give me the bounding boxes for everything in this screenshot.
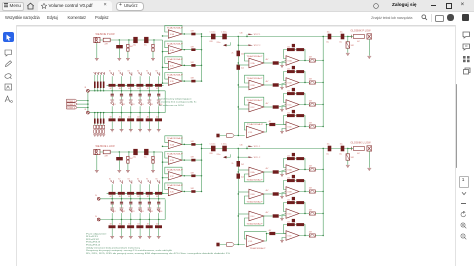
selected select-tool [3, 32, 14, 43]
right panel [455, 25, 474, 266]
svg-text:K3: K3 [128, 179, 130, 181]
capacitor C112 2u2 [237, 65, 241, 70]
wire ladder chain ch1 [107, 84, 164, 86]
net flag big amp input ch1 [226, 134, 234, 138]
svg-text:WEJSCIE P LOW: WEJSCIE P LOW [96, 33, 116, 36]
wire ladder bus [100, 198, 165, 200]
wire connector ground leg [368, 151, 370, 168]
capacitor ladder C214 [148, 202, 151, 203]
Zaloguj sie [392, 2, 416, 7]
resistor R251 2k2 feedback [296, 179, 304, 182]
resistor R112 10R [191, 64, 195, 67]
wire [152, 51, 154, 58]
relay contact K121 [120, 102, 123, 105]
wire +in IC1A [163, 35, 169, 37]
ground [102, 135, 105, 137]
wire [348, 36, 354, 38]
wire tap [139, 220, 141, 226]
svg-text:4k7: 4k7 [269, 121, 272, 123]
ground [138, 100, 142, 102]
svg-text:R2=R12: R2=R12 [86, 239, 99, 241]
svg-text:K1: K1 [109, 71, 111, 73]
ground [346, 165, 350, 167]
ground at +in IC6B [280, 197, 284, 199]
wire tap [158, 113, 160, 119]
svg-text:IN: IN [95, 216, 97, 218]
wire tap [148, 220, 150, 226]
resistor R232 4k7 [273, 214, 279, 217]
wire IC3A out [264, 62, 273, 64]
wire contact stub [130, 106, 132, 112]
svg-text:4k7: 4k7 [156, 196, 159, 198]
capacitor C105 100p [152, 48, 154, 51]
wire +in ground leg IC6B [282, 194, 286, 197]
svg-text:IC2D: IC2D [170, 192, 175, 194]
ground [129, 208, 133, 210]
wire tap [121, 195, 123, 202]
ground [95, 171, 99, 173]
svg-text:10u: 10u [340, 32, 343, 34]
wire feedback loop IC2C [165, 167, 182, 176]
svg-text:10R: 10R [309, 123, 313, 125]
resistor R243 2k2 feedback [287, 223, 295, 226]
ground at +in IC6A [280, 175, 284, 177]
svg-text:10R: 10R [351, 45, 355, 47]
wire +in ground leg IC6C [282, 216, 286, 219]
ground [157, 130, 161, 132]
resistor ladder trim R111 [97, 82, 99, 89]
wire contact stub [158, 76, 160, 85]
svg-text:4k7: 4k7 [156, 223, 159, 225]
svg-text:IC1D: IC1D [170, 81, 175, 83]
resistor R152 2k2 feedback [296, 92, 304, 95]
ground at +in IC5C [280, 110, 284, 112]
svg-text:K3: K3 [132, 211, 134, 213]
resistor R113 ladder [136, 84, 143, 87]
svg-text:STER 3: STER 3 [67, 108, 75, 110]
node out1 [347, 36, 348, 37]
svg-text:10R: 10R [191, 157, 195, 159]
relay contact K214 [148, 180, 151, 183]
resistor R115 ladder [155, 84, 162, 87]
svg-text:10R: 10R [191, 188, 195, 190]
resistor ladder trim R112 [100, 82, 102, 89]
resistor R223 ladder [136, 225, 143, 228]
resistor ladder trim R113 [103, 82, 105, 89]
wire output IC1A [182, 33, 202, 35]
capacitor C120 out [328, 34, 332, 40]
wire +in IC4C [238, 213, 249, 215]
svg-text:4k7: 4k7 [128, 117, 131, 119]
wire output IC6D [299, 235, 323, 237]
resistor ladder trim R122 [100, 119, 102, 124]
svg-text:TDA2320A-P: TDA2320A-P [246, 77, 263, 80]
wire [275, 124, 286, 126]
resistor R213 ladder [136, 192, 143, 195]
wire [347, 160, 349, 165]
svg-text:IC3C: IC3C [251, 107, 256, 109]
resistor R121 ladder [118, 118, 125, 121]
op-amp IC1B buffer [167, 42, 184, 54]
ground [95, 59, 99, 61]
+ Utworz chip [116, 2, 144, 11]
wire ladder rows join ch2 [164, 200, 166, 220]
wire output IC1D [182, 80, 202, 82]
resistor R241 2k2 feedback [287, 179, 295, 182]
wire buffer merge bus ch2 [201, 144, 203, 191]
ground [126, 59, 130, 61]
wire feedback loop IC3C [245, 97, 264, 107]
capacitor ladder C213 [139, 202, 142, 203]
tool icons [4, 49, 13, 57]
svg-text:WEJSCIE L LOW: WEJSCIE L LOW [96, 145, 116, 148]
wire feedback loop IC3B [245, 75, 264, 85]
resistor R142 2k2 feedback [287, 92, 295, 95]
relay contact K112 [129, 72, 132, 75]
wire [148, 121, 150, 129]
resistor R240 2k2 feedback [287, 157, 295, 160]
capacitor C102 100p [127, 48, 129, 51]
home icon [26, 2, 35, 10]
node out2 [347, 148, 348, 149]
capacitor C205 100p [152, 160, 154, 163]
svg-text:nie widoczne na SCH: nie widoczne na SCH [159, 105, 185, 107]
capacitor ladder C210 [111, 202, 114, 203]
capacitor ladder C113 [139, 94, 142, 95]
svg-text:63V: 63V [210, 41, 214, 43]
relay contact K125 [157, 102, 160, 105]
wire output IC2B [182, 159, 202, 161]
resistor R211 ladder [118, 192, 125, 195]
svg-text:4k7: 4k7 [357, 41, 360, 43]
svg-text:2k: 2k [232, 53, 234, 55]
svg-text:K2: K2 [123, 211, 125, 213]
ground [129, 130, 133, 132]
wire [121, 228, 123, 236]
wire output IC5D [299, 126, 323, 128]
wire contact stub [158, 213, 160, 219]
wire ladder bus [89, 90, 165, 92]
svg-text:TDA2320A-P: TDA2320A-P [167, 58, 184, 61]
svg-text:2k2: 2k2 [241, 164, 244, 166]
svg-text:IN: IN [84, 109, 86, 111]
resistor R120 ladder [109, 118, 116, 121]
wire tap [139, 195, 141, 202]
wire IC4A out [264, 171, 273, 173]
resistor R124 ladder [146, 118, 153, 121]
resistor R160 10R out [309, 59, 315, 62]
svg-text:TDA2320A-P: TDA2320A-P [167, 74, 184, 77]
ground [367, 168, 371, 170]
svg-text:C30: C30 [240, 33, 243, 35]
ground at +in IC6C [280, 219, 284, 221]
ground [110, 237, 114, 239]
capacitor C143 feedback [292, 110, 295, 113]
svg-text:4k7: 4k7 [147, 223, 150, 225]
wire [111, 121, 113, 129]
relay contact K212 [129, 180, 132, 183]
svg-text:TDA2320A-P: TDA2320A-P [167, 137, 184, 140]
capacitor C220 out [328, 146, 332, 152]
wire contact stub [148, 106, 150, 112]
svg-text:10R: 10R [351, 157, 355, 159]
wire big amp output riser ch2 [264, 234, 269, 242]
relay contact K114 [148, 72, 151, 75]
ground [148, 100, 152, 102]
svg-text:TDA2320A-P: TDA2320A-P [167, 27, 184, 30]
wire contact stub [111, 213, 113, 219]
svg-text:22R: 22R [105, 156, 109, 158]
ground [148, 130, 152, 132]
resistor R130 4k7 [273, 61, 279, 64]
capacitor C141 feedback [292, 66, 295, 69]
ground [117, 171, 121, 173]
svg-text:IC1C: IC1C [170, 66, 175, 68]
wire feedback loop IC1D [165, 73, 182, 82]
wire [153, 152, 155, 156]
wire [118, 40, 120, 45]
resistor R250 2k2 feedback [296, 157, 304, 160]
acrobat toolbar row [0, 12, 474, 27]
resistor R262 10R out [309, 212, 315, 215]
relay contact K221 [120, 209, 123, 212]
svg-text:4k7: 4k7 [110, 117, 113, 119]
svg-text:K1: K1 [114, 104, 116, 106]
svg-text:4k7: 4k7 [128, 196, 131, 198]
relay contact K215 [157, 180, 160, 183]
ground [120, 130, 124, 132]
relay contact K224 [148, 209, 151, 212]
ground [99, 135, 102, 137]
capacitor C210 100u [211, 146, 216, 152]
capacitor ladder C110 [111, 94, 114, 95]
svg-text:4k7: 4k7 [156, 117, 159, 119]
pin port ch1 ladder row [87, 89, 90, 92]
connector X1 input [94, 37, 100, 42]
wire feedback loop IC5A [284, 50, 306, 61]
capacitor C211 100u [222, 146, 227, 152]
svg-text:K6: K6 [156, 179, 158, 181]
wire contact stub [121, 213, 123, 219]
resistor R212 10R [191, 175, 195, 178]
capacitor C142 feedback [292, 88, 295, 91]
svg-text:2k2: 2k2 [287, 90, 290, 92]
svg-text:TDA2320A-P: TDA2320A-P [167, 42, 184, 45]
svg-text:10u: 10u [133, 157, 136, 159]
op-amp IC1A buffer [167, 27, 184, 39]
wire [348, 148, 354, 150]
net flag STER 1 [67, 99, 88, 103]
svg-text:10u: 10u [133, 45, 136, 47]
wire connector ground leg [96, 155, 98, 170]
ground [157, 237, 161, 239]
ground [367, 56, 371, 58]
resistor R203 4k7 [152, 156, 154, 159]
relay contact K123 [138, 102, 141, 105]
ground [110, 208, 114, 210]
wire ladder chain ch2 [107, 192, 164, 194]
op-amp IC2B buffer [167, 153, 184, 165]
resistor R220 2k2 [237, 161, 241, 167]
resistor R252 2k2 feedback [296, 201, 304, 204]
svg-text:K4: K4 [137, 179, 139, 181]
node div1 [238, 36, 239, 37]
svg-text:C30: C30 [240, 145, 243, 147]
svg-text:K2: K2 [118, 179, 120, 181]
wire contact stub [158, 106, 160, 112]
op-amp IC3B stage2 [246, 77, 263, 90]
resistor R202 4k7 [127, 156, 129, 159]
svg-text:C 100u: C 100u [221, 32, 227, 34]
svg-text:C 100u: C 100u [210, 144, 216, 146]
wire contact stub [130, 213, 132, 219]
resistor ladder trim R123 [103, 119, 105, 124]
wire [118, 160, 120, 170]
wire feedback loop IC1B [165, 41, 182, 50]
svg-text:R4=R14: R4=R14 [86, 245, 100, 247]
capacitor C221 out [341, 146, 345, 152]
capacitor ladder C211 [120, 202, 123, 203]
svg-text:2u2: 2u2 [241, 177, 244, 179]
wire feedback loop IC3D [244, 123, 266, 130]
svg-text:63V: 63V [210, 153, 214, 155]
resistor R110 10R [191, 33, 195, 36]
relay contact K223 [138, 209, 141, 212]
svg-text:10u: 10u [144, 45, 147, 47]
op-amp IC3D stage2 big [247, 123, 265, 138]
wire [347, 149, 349, 154]
svg-text:4k7: 4k7 [266, 212, 269, 214]
svg-text:4k7: 4k7 [128, 223, 131, 225]
pin stub big amp input ch1 [216, 134, 219, 138]
svg-text:IC5D: IC5D [288, 127, 293, 129]
svg-text:4k7: 4k7 [137, 196, 140, 198]
svg-text:2k2: 2k2 [287, 199, 290, 201]
node in1b [128, 39, 129, 40]
svg-text:10u: 10u [326, 41, 329, 43]
ground [120, 237, 124, 239]
wire contact stub [121, 184, 123, 193]
svg-text:C 100u: C 100u [210, 32, 216, 34]
wire feedback loop IC2B [165, 152, 182, 161]
svg-text:4k7: 4k7 [147, 196, 150, 198]
resistor R111 10R [191, 48, 195, 51]
ground [151, 171, 155, 173]
wire [279, 61, 286, 64]
net flag WY L 2 [238, 157, 260, 160]
wire tap [111, 195, 113, 202]
net flag big amp input ch2 [226, 243, 234, 247]
wire feedback loop IC4A [245, 172, 264, 182]
svg-text:WY P 1: WY P 1 [254, 34, 260, 36]
capacitor ladder C215 [157, 202, 160, 203]
svg-text:2k2: 2k2 [287, 112, 290, 114]
svg-text:GLOSNIK P LOW: GLOSNIK P LOW [351, 30, 372, 32]
page number box [459, 176, 469, 188]
wire +in IC3B [238, 86, 249, 88]
svg-text:10R: 10R [309, 188, 313, 190]
svg-text:4k7: 4k7 [119, 88, 122, 90]
wire [220, 244, 227, 246]
wire feedback loop IC3A [245, 53, 264, 63]
svg-text:220u: 220u [217, 42, 221, 44]
svg-text:R1=R11: R1=R11 [86, 236, 98, 238]
relay contact K122 [129, 102, 132, 105]
resistor R261 10R out [309, 190, 315, 193]
relay contact K111 [120, 72, 123, 75]
op-amp IC5A stage2 [286, 56, 299, 66]
svg-text:K2: K2 [123, 104, 125, 106]
wire feedback loop IC5C [284, 94, 306, 105]
ground [129, 237, 133, 239]
svg-text:K4: K4 [142, 104, 144, 106]
capacitor C240 feedback [292, 153, 295, 156]
wire [158, 228, 160, 236]
svg-text:2k2: 2k2 [287, 177, 290, 179]
resistor R224 ladder [146, 225, 153, 228]
node in1c [153, 39, 154, 40]
svg-text:K4: K4 [142, 211, 144, 213]
wire ladder rows join ch1 [164, 91, 166, 113]
resistor R112 ladder [127, 84, 134, 87]
resistor R214 ladder [146, 192, 153, 195]
resistor R211 10R [191, 159, 195, 162]
wire [279, 214, 286, 217]
svg-text:4k7: 4k7 [269, 230, 272, 232]
pin port ch2 ladder row [97, 197, 100, 200]
wire output IC1C [182, 64, 202, 66]
svg-text:10R: 10R [191, 46, 195, 48]
wire input bus ch1 [162, 40, 164, 83]
ground [157, 208, 161, 210]
wire feedback loop IC6D [284, 225, 306, 236]
wire +in ground leg IC5C [282, 107, 286, 110]
wire feedback loop IC5D [284, 116, 306, 127]
svg-text:K3: K3 [128, 71, 130, 73]
svg-text:10u: 10u [339, 153, 342, 155]
wire feedback loop IC4C [245, 216, 264, 226]
wire connector ground leg [96, 43, 98, 58]
ground at +in IC5B [280, 88, 284, 90]
capacitor C202 100p [127, 160, 129, 163]
net flag STER 3 [67, 106, 88, 110]
wire [127, 51, 129, 58]
svg-text:4k7: 4k7 [147, 117, 150, 119]
svg-text:IC4C: IC4C [251, 216, 256, 218]
resistor R161 10R out [309, 81, 315, 84]
wire main net ch1 [202, 36, 353, 38]
wire contact stub [139, 184, 141, 193]
ground [96, 135, 99, 137]
wire contact stub [121, 106, 123, 112]
wire ladder bus [100, 219, 165, 221]
wire contact stub [130, 76, 132, 85]
wire contact stub [139, 213, 141, 219]
svg-text:IC5C: IC5C [288, 105, 293, 107]
svg-text:K1: K1 [114, 211, 116, 213]
wire pin bus ch1 [87, 92, 89, 111]
wire [153, 40, 155, 44]
svg-text:TDA2320A-P: TDA2320A-P [167, 184, 184, 187]
resistor R125 ladder [155, 118, 162, 121]
wire output IC2D [182, 191, 202, 193]
wire tap [130, 87, 132, 94]
wire [127, 163, 129, 170]
svg-text:WY P 2: WY P 2 [254, 45, 260, 47]
resistor R233 4k7 [269, 232, 275, 235]
wire ladder bus [89, 112, 165, 114]
resistor ladder trim R120 [94, 119, 96, 124]
